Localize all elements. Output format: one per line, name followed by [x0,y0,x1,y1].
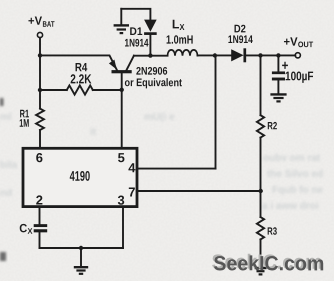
wire R4 rail from VBAT node [40,89,67,91]
svg-text:R2: R2 [267,120,277,132]
wire bottom rail [40,247,124,249]
wire R4 to base node [93,89,122,91]
svg-text:Fqub fo ne: Fqub fo ne [272,185,324,196]
wire R2 to pin7 node [260,138,262,191]
faint ghost bleed-through text (background) [0,112,324,212]
resistor R4 2.2K [67,85,93,94]
svg-text:mU(i e: mU(i e [144,112,175,123]
ground (bottom, below IC) [74,267,88,274]
ground (below 100uF cap) [270,94,286,101]
wire ground stem (top ground) [120,9,122,24]
svg-text:4: 4 [128,160,136,175]
wire base node down to IC pin 5 [121,90,123,148]
svg-text:+V: +V [28,14,42,28]
wire Cx to bottom rail [39,232,41,248]
svg-text:X: X [28,227,34,236]
svg-text:+V: +V [284,35,298,49]
svg-text:2.2K: 2.2K [70,71,92,86]
resistor R3 [257,217,264,239]
ground (below R3) [255,268,267,274]
wire cap branch from VOUT rail [277,55,279,71]
wire bottom ground stem [80,248,82,266]
svg-text:7: 7 [128,184,135,199]
transistor Q1 emitter arrow [109,60,117,70]
svg-text:5: 5 [118,150,125,165]
svg-text:2N2906: 2N2906 [136,66,168,78]
svg-text:a i aww droi: a i aww droi [262,201,319,212]
IC U1 4190 box [23,148,137,206]
svg-text:bila: bila [0,160,18,171]
inductor Lx 1.0mH [168,50,198,56]
ground (top, near D1) [114,25,129,33]
svg-text:2: 2 [36,193,43,208]
svg-text:1.0mH: 1.0mH [166,33,193,47]
svg-text:oubv om rat: oubv om rat [263,153,321,164]
wire IC pin 3 lead down [122,207,124,248]
svg-text:1M: 1M [19,118,29,130]
svg-text:1N914: 1N914 [228,34,254,46]
svg-text:SeekIC.com: SeekIC.com [213,252,324,275]
svg-text:OUT: OUT [298,40,313,49]
wire pin4 vertical [215,56,217,169]
svg-text:4190: 4190 [70,168,91,184]
resistor R2 [257,115,264,137]
transistor Q1 base lead [121,73,123,90]
svg-text:ml: ml [0,112,12,123]
transistor Q1 collector lead [126,56,134,71]
wire cap to ground stem [277,80,279,93]
wire inductor to D2 [198,54,232,56]
svg-text:C: C [19,221,27,235]
svg-text:or Equivalent: or Equivalent [125,77,183,89]
svg-text:nd: nd [0,188,12,199]
svg-text:X: X [179,22,184,32]
diode D1 1N914 (triangle + cathode bar) [144,20,157,32]
svg-text:D1: D1 [130,26,143,38]
wire IC pin 7 lead [137,190,261,192]
svg-text:it: it [90,127,97,138]
wire collector to inductor [134,55,168,57]
resistor R1 1M [36,109,44,130]
wire VOUT node down to R2 [260,55,262,115]
wire IC pin 2 lead down [39,207,41,225]
wire VBAT stem down to R1 [39,38,41,109]
wire emitter rail from VBAT node [40,55,117,70]
wire top loop to D1 [121,9,150,20]
capacitor C1 100uF plates [272,73,285,79]
svg-text:the Silvo ed: the Silvo ed [267,169,323,180]
svg-text:BAT: BAT [43,20,55,29]
wire pin7 node to R3 [260,191,262,217]
watermark SeekIC.com [211,251,324,276]
capacitor Cx plates [34,226,48,231]
svg-text:100µF: 100µF [285,69,314,83]
svg-text:6: 6 [36,150,43,165]
node +VOUT terminal [295,53,300,58]
wire D2 cathode to VOUT [246,54,295,56]
wire R3 to ground [260,239,262,267]
svg-text:1N914: 1N914 [125,37,150,49]
transistor Q1 2N2906 base bar [112,70,132,73]
wire D1 cathode to collector rail [149,35,151,56]
diode D2 1N914 (triangle + cathode bar) [231,49,243,61]
node +VBAT terminal [37,32,42,37]
wire R1 to IC pin 6 [39,130,41,148]
svg-text:3: 3 [118,193,125,208]
wire IC pin 4 lead [137,168,216,170]
svg-text:R3: R3 [267,226,277,238]
